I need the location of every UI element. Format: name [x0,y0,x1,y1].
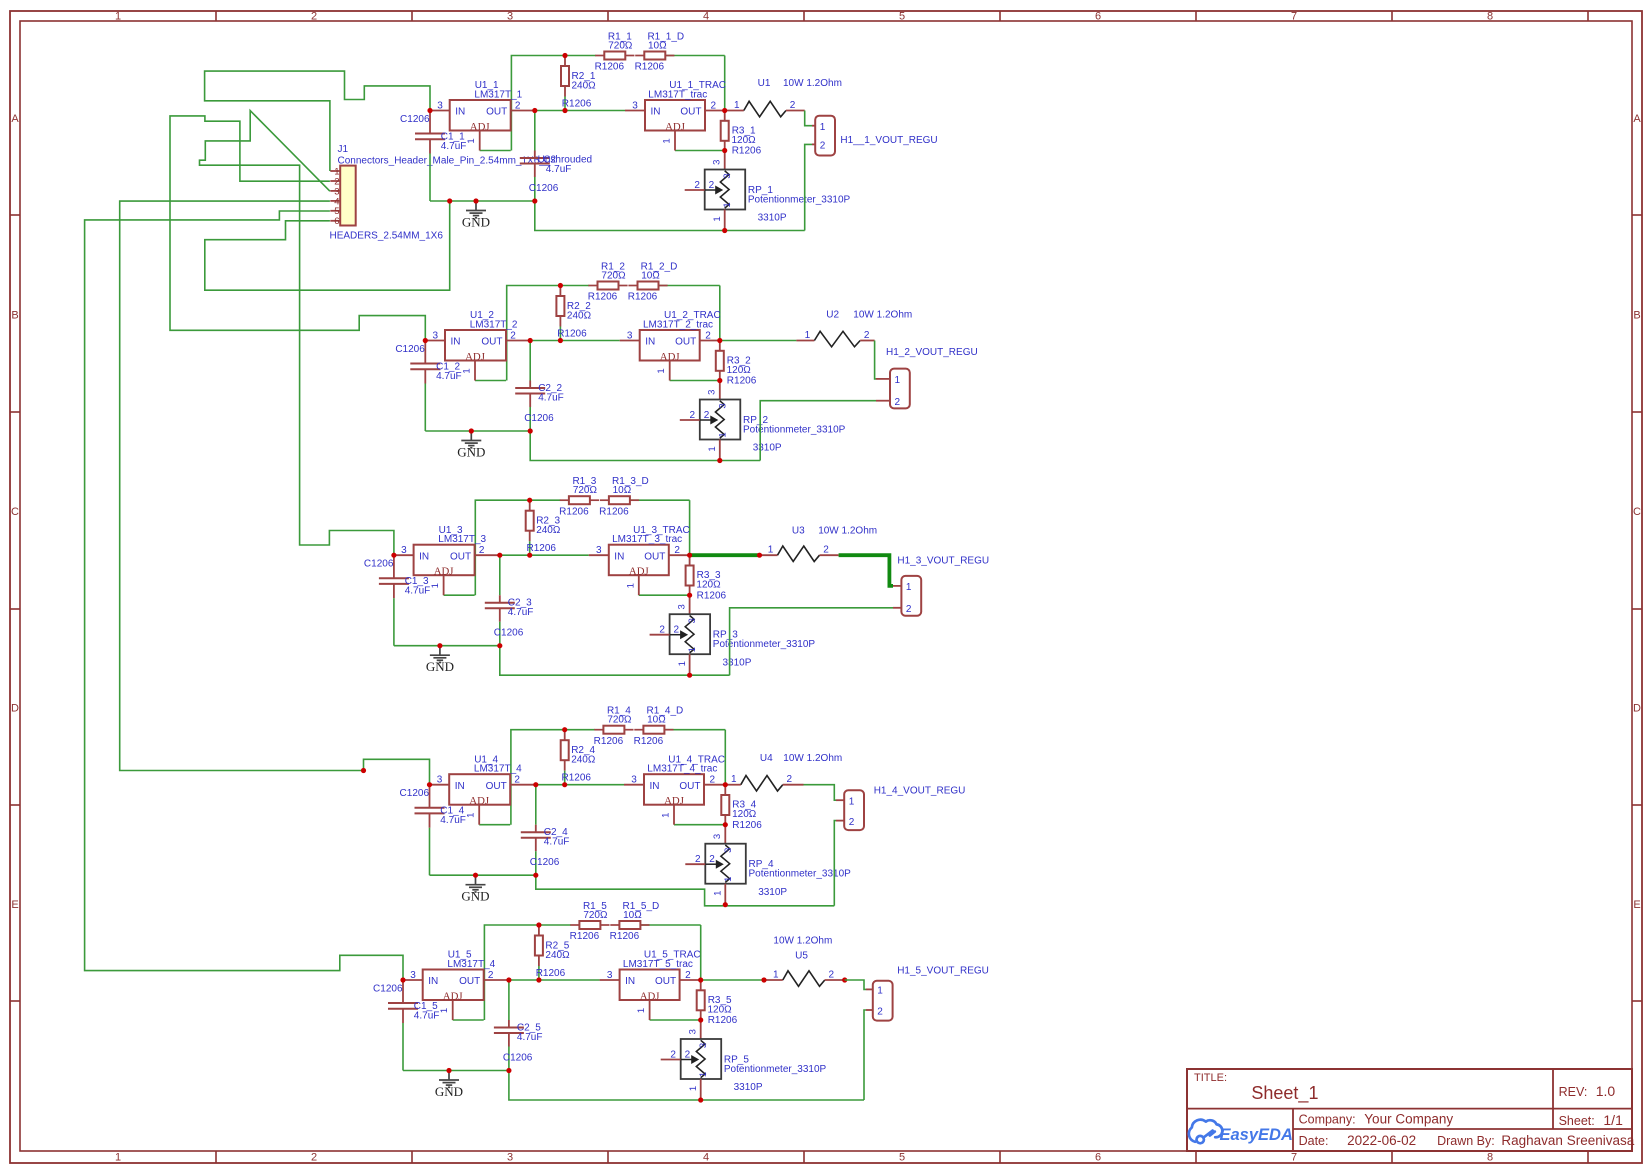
svg-text:4.7uF: 4.7uF [405,586,431,597]
resistor R1_4 720Ω [594,706,634,747]
svg-text:8: 8 [1487,1152,1493,1164]
svg-text:1: 1 [625,583,636,588]
svg-text:ADJ: ADJ [470,121,490,133]
power resistor U2 10W 1.2Ohm [720,310,912,347]
wire ADJ loop of U1_5_TRAC to node below R3_5 [650,1019,701,1021]
resistor R1_2 720Ω [588,262,628,303]
svg-text:4.7uF: 4.7uF [538,393,564,404]
regulator U1_5 (LM317T_4) [403,950,509,1020]
svg-text:D: D [11,703,19,715]
svg-text:A: A [1633,113,1641,125]
svg-text:C1206: C1206 [524,413,554,424]
svg-text:LM317T_4: LM317T_4 [474,764,522,775]
svg-text:IN: IN [614,551,624,562]
svg-text:D: D [1633,703,1641,715]
svg-text:2: 2 [659,625,665,636]
svg-text:U4: U4 [760,753,773,764]
svg-text:3: 3 [676,604,687,609]
svg-text:R1206: R1206 [697,590,727,601]
wire J1 pin4 to U1_4 IN [120,201,430,785]
power resistor U4 10W 1.2Ohm [725,753,842,791]
wire bottom net block 4 [536,875,835,906]
wire bottom net block 2 [530,431,760,461]
svg-text:720Ω: 720Ω [601,271,626,282]
svg-text:3: 3 [631,775,637,786]
svg-text:GND: GND [462,214,490,229]
svg-text:1: 1 [731,774,737,785]
wire bottom net block 3 [500,646,730,676]
svg-text:R1206: R1206 [594,736,624,747]
svg-text:Sheet:: Sheet: [1559,1114,1595,1128]
wire ADJ loop of U1_1 [480,150,511,152]
svg-text:OUT: OUT [675,337,696,348]
svg-text:Your Company: Your Company [1364,1111,1453,1126]
resistor R3_2 120Ω [716,341,757,387]
wire J1 pin6 to ground net of block 1 [205,201,450,290]
capacitor C1_5 4.7uF [373,982,439,1071]
potentiometer RP_5 3310P [661,1020,827,1100]
svg-text:Sheet_1: Sheet_1 [1251,1083,1318,1104]
svg-text:2: 2 [514,775,520,786]
svg-text:2: 2 [895,397,901,408]
svg-text:C1206: C1206 [494,628,524,639]
resistor R2_1 240Ω [561,56,596,111]
wire OUT of U1_5 to IN of U1_5_TRAC [509,979,600,981]
svg-text:ADJ: ADJ [434,566,454,578]
resistor R3_4 120Ω [721,785,762,831]
svg-text:1: 1 [662,138,673,143]
svg-text:TITLE:: TITLE: [1194,1072,1227,1084]
svg-text:LM317T_4_trac: LM317T_4_trac [647,764,717,775]
connector H1_3_VOUT_REGU [897,556,989,616]
svg-text:C: C [11,506,19,518]
svg-text:OUT: OUT [680,107,701,118]
capacitor C1_3 4.7uF [364,557,430,646]
svg-text:IN: IN [451,337,461,348]
svg-text:Potentionmeter_3310P: Potentionmeter_3310P [724,1064,827,1075]
svg-text:10W 1.2Ohm: 10W 1.2Ohm [773,936,832,947]
connector J1 HEADERS_2.54MM_1X6 [330,144,551,241]
svg-text:U2: U2 [826,310,839,321]
svg-text:3: 3 [437,775,443,786]
svg-text:6: 6 [1095,1152,1101,1164]
resistor R2_2 240Ω [556,286,591,341]
svg-text:1: 1 [773,970,779,981]
svg-text:Potentionmeter_3310P: Potentionmeter_3310P [743,425,846,436]
svg-text:R1206: R1206 [599,506,629,517]
svg-text:1: 1 [906,582,912,593]
svg-text:LM317T_5_trac: LM317T_5_trac [623,959,693,970]
svg-text:4: 4 [703,11,709,23]
wire J1 pin2 to U1_2 IN [170,116,425,341]
svg-text:A: A [11,113,19,125]
regulator U1_3_TRAC (LM317T_3_trac) [589,525,690,595]
capacitor C2 of block 5 4.7uF [494,980,543,1071]
svg-text:3310P: 3310P [734,1082,763,1093]
connector H1_5_VOUT_REGU [873,966,989,1021]
capacitor C1_1 4.7uF [400,113,466,202]
svg-text:R1206: R1206 [634,736,664,747]
svg-text:2: 2 [695,854,701,865]
svg-text:1: 1 [849,797,855,808]
svg-text:1: 1 [439,1008,450,1013]
svg-text:LM317T_3: LM317T_3 [438,534,486,545]
svg-text:2: 2 [829,970,835,981]
svg-text:1: 1 [713,891,724,896]
svg-text:C1206: C1206 [503,1052,533,1063]
wire top net (OUT of U1_5 to R1_5 chain) [484,925,700,1020]
ground GND of block 4 [461,875,489,903]
svg-text:3: 3 [717,403,728,408]
svg-text:10Ω: 10Ω [641,271,660,282]
title block [1187,1069,1635,1151]
svg-text:120Ω: 120Ω [727,365,752,376]
svg-text:C1206: C1206 [529,183,559,194]
svg-text:240Ω: 240Ω [571,755,596,766]
svg-text:1: 1 [677,661,688,666]
svg-text:H1__1_VOUT_REGU: H1__1_VOUT_REGU [840,135,937,146]
svg-text:4: 4 [703,1152,709,1164]
resistor R1_4_D 10Ω [634,706,684,747]
potentiometer RP_1 3310P [685,151,851,231]
svg-text:3: 3 [712,834,723,839]
svg-text:OUT: OUT [644,551,665,562]
svg-text:1: 1 [462,368,473,373]
wire OUT of U1_4 to IN of U1_4_TRAC [536,784,624,786]
svg-text:OUT: OUT [481,337,502,348]
svg-text:240Ω: 240Ω [545,950,570,961]
EasyEDA logo [1189,1120,1293,1144]
svg-text:2: 2 [849,817,855,828]
svg-text:10W 1.2Ohm: 10W 1.2Ohm [783,78,842,89]
wire connector H1 pin2 to bottom net (block 1) [805,144,816,230]
svg-text:Date:: Date: [1299,1134,1329,1148]
svg-text:R1206: R1206 [628,292,658,303]
svg-text:HEADERS_2.54MM_1X6: HEADERS_2.54MM_1X6 [330,231,444,242]
svg-text:LM317T_1: LM317T_1 [474,90,522,101]
svg-text:10Ω: 10Ω [648,41,667,52]
regulator U1_2 (LM317T_2) [425,310,530,380]
wire connector H1 pin2 to bottom net (block 4) [834,821,844,906]
svg-text:IN: IN [651,107,661,118]
svg-text:GND: GND [461,889,489,904]
wire J1 pin5 to U1_5 IN [85,211,403,980]
wire J1 pin3 to U1_3 IN (diagonal) [200,111,394,556]
svg-text:ADJ: ADJ [629,566,649,578]
svg-text:C1206: C1206 [364,559,394,570]
resistor R3_3 120Ω [686,555,727,601]
svg-text:720Ω: 720Ω [608,41,633,52]
wire ADJ loop of U1_3 [444,594,475,596]
wire top net (OUT of U1_4 to R1_4 chain) [511,730,725,825]
wire ADJ loop of U1_2 [475,380,506,382]
resistor R1_2_D 10Ω [628,262,678,303]
wire ground net of block 1 [430,200,535,202]
resistor R1_1 720Ω [595,32,635,73]
svg-text:1: 1 [805,330,811,341]
svg-text:7: 7 [1291,1152,1297,1164]
svg-text:240Ω: 240Ω [572,81,597,92]
svg-text:3: 3 [507,1152,513,1164]
svg-text:2: 2 [704,410,710,421]
connector H1__1_VOUT_REGU [815,116,937,156]
ground GND of block 1 [462,201,490,229]
svg-text:6: 6 [334,216,339,227]
resistor R2_3 240Ω [526,500,561,555]
svg-text:R1206: R1206 [610,931,640,942]
svg-text:IN: IN [455,781,465,792]
svg-text:2: 2 [823,545,829,556]
svg-text:1.0: 1.0 [1596,1083,1616,1099]
svg-text:2: 2 [864,330,870,341]
svg-text:1: 1 [688,1086,699,1091]
svg-text:IN: IN [650,781,660,792]
potentiometer RP_2 3310P [680,381,846,461]
svg-text:3310P: 3310P [758,213,787,224]
svg-text:3: 3 [433,331,439,342]
svg-text:2: 2 [674,545,680,556]
svg-text:4.7uF: 4.7uF [546,164,572,175]
svg-text:3: 3 [698,1043,709,1048]
svg-text:1: 1 [656,368,667,373]
svg-text:H1_5_VOUT_REGU: H1_5_VOUT_REGU [897,966,989,977]
svg-text:2: 2 [709,180,715,191]
resistor R2_4 240Ω [561,730,596,785]
junction dots block 4 [361,727,728,907]
svg-text:Potentionmeter_3310P: Potentionmeter_3310P [748,195,851,206]
junction dots block 3 [391,498,692,678]
svg-text:2: 2 [685,1050,691,1061]
svg-text:OUT: OUT [679,781,700,792]
svg-text:Potentionmeter_3310P: Potentionmeter_3310P [749,869,852,880]
junction dots block 5 [400,922,703,1102]
regulator U1_4 (LM317T_4) [430,754,536,824]
svg-text:3: 3 [688,1029,699,1034]
svg-text:2: 2 [674,625,680,636]
resistor R1_5_D 10Ω [610,901,660,942]
svg-text:C1206: C1206 [530,857,560,868]
svg-text:3: 3 [707,390,718,395]
svg-text:IN: IN [645,337,655,348]
svg-text:2: 2 [311,1152,317,1164]
svg-text:Connectors_Header_Male_Pin_2.5: Connectors_Header_Male_Pin_2.54mm_1X6__ [338,156,551,167]
wire ground net of block 4 [430,874,536,876]
svg-text:4.7uF: 4.7uF [508,607,534,618]
svg-text:R1206: R1206 [588,292,618,303]
svg-text:120Ω: 120Ω [708,1004,733,1015]
svg-text:120Ω: 120Ω [732,135,757,146]
svg-text:OUT: OUT [486,781,507,792]
svg-text:10Ω: 10Ω [613,485,632,496]
svg-text:2: 2 [670,1050,676,1061]
svg-text:IN: IN [428,976,438,987]
svg-text:4.7uF: 4.7uF [436,371,462,382]
svg-text:ADJ: ADJ [664,795,684,807]
capacitor C2 of block 1 4.7uF [520,111,592,202]
power resistor U5 10W 1.2Ohm [701,936,835,987]
wire ground net of block 5 [403,1070,509,1072]
svg-text:3: 3 [437,101,443,112]
svg-text:Company:: Company: [1299,1112,1356,1126]
wire U5 pin2 to connector H1 pin1 [825,977,873,989]
svg-text:ADJ: ADJ [660,351,680,363]
ground GND of block 5 [435,1071,463,1099]
svg-text:2: 2 [685,970,691,981]
svg-text:IN: IN [455,107,465,118]
svg-text:2: 2 [694,180,700,191]
wire OUT of U1_3 to IN of U1_3_TRAC [500,554,589,556]
potentiometer RP_4 3310P [685,825,851,905]
svg-text:1: 1 [723,877,734,882]
svg-text:E: E [11,899,18,911]
svg-text:ADJ: ADJ [465,351,485,363]
svg-text:R1206: R1206 [562,773,592,784]
svg-text:R1206: R1206 [727,376,757,387]
svg-text:LM317T_3_trac: LM317T_3_trac [612,534,682,545]
svg-text:OUT: OUT [459,976,480,987]
svg-text:ADJ: ADJ [469,795,489,807]
svg-text:R1206: R1206 [536,968,566,979]
capacitor C2 of block 3 4.7uF [485,555,534,646]
svg-text:1: 1 [687,647,698,652]
wire top net (OUT of U1_2 to R1_2 chain) [507,286,720,381]
svg-text:C: C [1633,506,1641,518]
svg-text:4.7uF: 4.7uF [414,1011,440,1022]
svg-text:2: 2 [705,331,711,342]
wire top net (OUT of U1_1 to R1_1 chain) [511,56,724,151]
svg-text:6: 6 [1095,11,1101,23]
wire connector H1 pin2 to bottom net (block 2) [760,401,890,461]
regulator U1_2_TRAC (LM317T_2_trac) [620,310,721,380]
svg-text:1/1: 1/1 [1603,1112,1623,1128]
wire ADJ loop of U1_1_TRAC to node below R3_1 [675,150,725,152]
svg-text:H1_2_VOUT_REGU: H1_2_VOUT_REGU [886,347,978,358]
connector H1_4_VOUT_REGU [844,785,965,830]
svg-text:R1206: R1206 [559,506,589,517]
capacitor C2 of block 2 4.7uF [515,341,564,432]
svg-text:Drawn By:: Drawn By: [1437,1134,1495,1148]
svg-text:1: 1 [895,375,901,386]
svg-text:240Ω: 240Ω [536,525,561,536]
svg-text:LM317T_2_trac: LM317T_2_trac [643,320,713,331]
svg-text:1: 1 [430,583,441,588]
wire ADJ loop of U1_2_TRAC to node below R3_2 [670,380,720,382]
svg-text:10W 1.2Ohm: 10W 1.2Ohm [783,753,842,764]
svg-text:5: 5 [899,11,905,23]
svg-text:R1206: R1206 [708,1015,738,1026]
svg-text:2: 2 [311,11,317,23]
svg-text:REV:: REV: [1559,1085,1588,1099]
svg-text:3: 3 [410,970,416,981]
svg-text:3: 3 [687,618,698,623]
svg-text:120Ω: 120Ω [696,580,721,591]
svg-text:4.7uF: 4.7uF [440,815,466,826]
wire OUT of U1_1 to IN of U1_1_TRAC [535,110,625,112]
svg-text:1: 1 [466,813,477,818]
wire U1 pin2 to connector H1 pin1 [786,111,815,126]
svg-text:R1206: R1206 [732,146,762,157]
svg-text:10W 1.2Ohm: 10W 1.2Ohm [818,526,877,537]
resistor R1_5 720Ω [570,901,610,942]
svg-text:R1206: R1206 [570,931,600,942]
svg-text:3: 3 [596,545,602,556]
svg-text:C1206: C1206 [400,114,430,125]
svg-text:1: 1 [820,122,826,133]
svg-text:3: 3 [722,173,733,178]
svg-text:1: 1 [717,432,728,437]
junction dots block 2 [423,283,723,463]
connector H1_2_VOUT_REGU [886,347,978,408]
svg-text:C1206: C1206 [373,984,403,995]
svg-text:Potentionmeter_3310P: Potentionmeter_3310P [713,639,816,650]
svg-text:U1: U1 [758,78,771,89]
svg-text:4.7uF: 4.7uF [544,837,570,848]
svg-text:1: 1 [712,216,723,221]
wire J1 pin1 to U1_1 IN (net A) [205,71,430,171]
svg-text:C1206: C1206 [395,344,425,355]
svg-text:LM317T_trac: LM317T_trac [648,90,707,101]
svg-text:720Ω: 720Ω [573,485,598,496]
svg-text:2022-06-02: 2022-06-02 [1347,1133,1416,1148]
svg-text:GND: GND [457,444,485,459]
svg-text:R1206: R1206 [732,820,762,831]
wire top net (OUT of U1_3 to R1_3 chain) [475,500,689,595]
wire ADJ loop of U1_4_TRAC to node below R3_4 [674,824,725,826]
svg-text:2: 2 [710,775,716,786]
svg-text:1: 1 [466,138,477,143]
capacitor C2 of block 4 4.7uF [521,785,570,876]
svg-text:2: 2 [709,854,715,865]
svg-text:2: 2 [790,100,796,111]
svg-text:720Ω: 720Ω [583,910,608,921]
svg-text:GND: GND [426,659,454,674]
svg-text:4.7uF: 4.7uF [517,1032,543,1043]
wire U3 pin2 to connector H1 pin1 [820,555,902,586]
svg-text:U5: U5 [795,951,808,962]
svg-text:1: 1 [115,11,121,23]
junction dots block 1 [427,53,727,233]
svg-text:R1206: R1206 [557,329,587,340]
svg-text:LM317T_4: LM317T_4 [447,959,495,970]
regulator U1_5_TRAC (LM317T_5_trac) [600,950,701,1020]
svg-text:3: 3 [627,331,633,342]
svg-text:1: 1 [698,1072,709,1077]
svg-text:2: 2 [488,970,494,981]
svg-text:4.7uF: 4.7uF [441,141,467,152]
power resistor U3 10W 1.2Ohm [690,526,878,562]
svg-text:7: 7 [1291,11,1297,23]
svg-text:1: 1 [707,446,718,451]
svg-text:2: 2 [510,331,516,342]
svg-text:ADJ: ADJ [640,991,660,1003]
svg-text:C1206: C1206 [400,788,430,799]
wire connector H1 pin2 to bottom net (block 5) [864,1010,873,1100]
svg-text:2: 2 [711,101,717,112]
power resistor U1 10W 1.2Ohm [725,78,842,117]
svg-text:EasyEDA: EasyEDA [1220,1126,1293,1144]
resistor R2_5 240Ω [535,925,570,980]
svg-text:2: 2 [690,410,696,421]
svg-text:3: 3 [712,160,723,165]
regulator U1_3 (LM317T_3) [394,525,500,595]
svg-text:Raghavan Sreenivasa: Raghavan Sreenivasa [1501,1133,1634,1148]
svg-text:1: 1 [734,100,740,111]
svg-text:5: 5 [899,1152,905,1164]
wire U4 pin2 to connector H1 pin1 [783,785,844,801]
wire OUT of U1_2 to IN of U1_2_TRAC [530,340,620,342]
svg-text:3: 3 [632,101,638,112]
svg-text:OUT: OUT [486,107,507,118]
